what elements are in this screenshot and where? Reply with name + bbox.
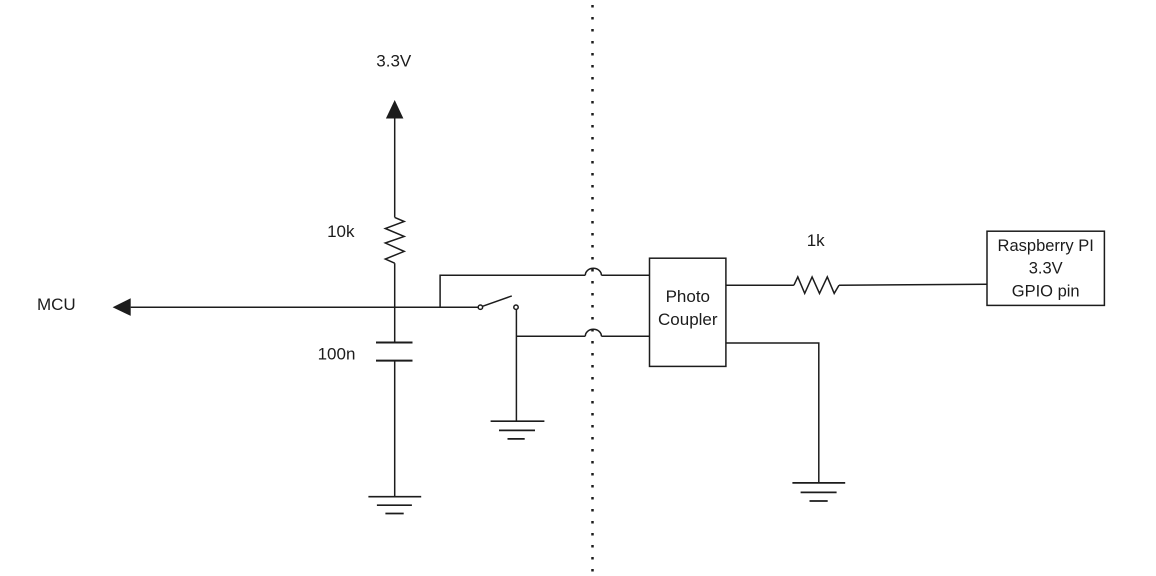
svg-text:1k: 1k (807, 231, 825, 250)
resistor R 10k (385, 217, 404, 263)
wire photocoupler return to ground (726, 343, 819, 483)
ground (capacitor) (368, 497, 421, 514)
svg-text:Raspberry PI: Raspberry PI (998, 237, 1094, 255)
svg-text:Coupler: Coupler (658, 310, 718, 329)
Raspberry PI GPIO box (987, 231, 1104, 305)
capacitor C 100n (376, 342, 413, 344)
svg-text:Photo: Photo (666, 287, 710, 306)
svg-text:100n: 100n (318, 345, 356, 364)
svg-text:3.3V: 3.3V (1029, 260, 1063, 278)
wire hop (upper) over barrier (585, 268, 601, 275)
wire photocoupler output to resistor 1k (726, 284, 794, 286)
wire branch up to photocoupler input (440, 275, 585, 307)
node MCU junction / horizontal wire (131, 306, 479, 308)
svg-text:GPIO pin: GPIO pin (1012, 283, 1080, 301)
wire hop to photocoupler lower pin (601, 335, 649, 337)
wire 1k to Raspberry PI box (839, 283, 987, 286)
wire switch to ground (515, 310, 517, 422)
ground (photocoupler return) (792, 483, 845, 501)
MCU arrow (113, 298, 131, 316)
wire capacitor to ground (394, 361, 396, 497)
wire resistor to capacitor (through MCU node) (394, 263, 396, 342)
svg-text:MCU: MCU (37, 295, 76, 314)
wire hop to photocoupler (601, 274, 649, 276)
wire switch node to photocoupler lower input (516, 335, 585, 337)
resistor R 1k (794, 277, 839, 294)
photo coupler U1 box (650, 258, 726, 366)
wire hop (lower) over barrier (585, 329, 601, 336)
wire 3.3V to resistor (394, 116, 396, 217)
ground (switch) (491, 421, 545, 439)
power symbol 3.3V arrow (386, 100, 404, 119)
isolation barrier dotted line (591, 5, 594, 576)
switch SW1 (478, 305, 482, 309)
svg-text:10k: 10k (327, 222, 355, 241)
svg-text:3.3V: 3.3V (376, 51, 412, 70)
